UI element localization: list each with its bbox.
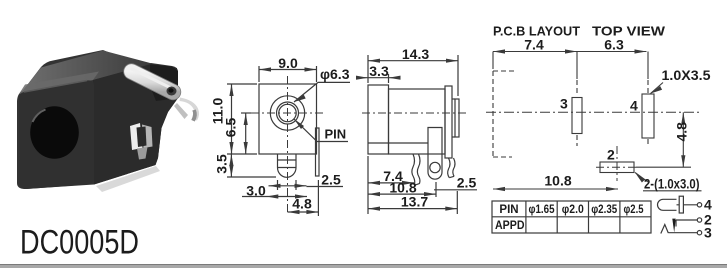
label 1.0X3.5 with leader bbox=[651, 67, 711, 94]
photo: jack drop shadow lower right bbox=[96, 166, 160, 192]
svg-text:1.0X3.5: 1.0X3.5 bbox=[662, 67, 711, 83]
photo: jack front face bbox=[19, 80, 94, 189]
front view center pin tab bbox=[277, 154, 279, 168]
pad 2 centerlines bbox=[616, 146, 618, 181]
dimension 14.3 bbox=[368, 46, 458, 96]
side view right wavy pin bbox=[448, 158, 450, 178]
dimension 7.4 / 6.3 shared line bbox=[493, 37, 647, 70]
pcb footprint dashed outline bbox=[493, 70, 514, 72]
svg-text:φ6.3: φ6.3 bbox=[320, 66, 350, 82]
schematic: terminal 2 wire bbox=[676, 219, 697, 221]
svg-text:APPD: APPD bbox=[495, 220, 525, 232]
photo: jack rear-right dark block bbox=[150, 65, 178, 102]
side view rear pin plate bbox=[455, 99, 459, 137]
photo: jack body silhouette bbox=[17, 50, 178, 189]
dimension 10.8 (pcb) bbox=[493, 173, 618, 192]
dimension 11.0 bbox=[209, 84, 257, 154]
side view horizontal centerline bbox=[362, 112, 466, 114]
svg-text:φ2.0: φ2.0 bbox=[562, 204, 584, 216]
side view bezel bbox=[368, 85, 389, 154]
svg-text:4: 4 bbox=[704, 197, 712, 213]
svg-text:φ2.35: φ2.35 bbox=[591, 204, 618, 216]
dimension 4.8 bbox=[288, 196, 319, 215]
svg-text:4: 4 bbox=[630, 98, 638, 114]
svg-text:6.5: 6.5 bbox=[222, 118, 238, 138]
front view horizontal centerline bbox=[251, 112, 326, 114]
dimension 3.3 bbox=[356, 63, 401, 83]
svg-text:DC0005D: DC0005D bbox=[20, 224, 139, 262]
svg-text:10.8: 10.8 bbox=[544, 173, 571, 189]
front view side lug bbox=[316, 128, 320, 176]
side view solder lug with hole bbox=[428, 128, 442, 180]
svg-text:3: 3 bbox=[560, 96, 568, 112]
dimension 9.0 bbox=[259, 55, 317, 82]
svg-text:4.8: 4.8 bbox=[292, 196, 312, 212]
svg-text:2-(1.0x3.0): 2-(1.0x3.0) bbox=[644, 177, 700, 192]
front view vertical centerline bbox=[287, 76, 289, 215]
svg-text:φ1.65: φ1.65 bbox=[529, 204, 556, 216]
side view main body bbox=[389, 89, 446, 154]
svg-text:13.7: 13.7 bbox=[401, 194, 428, 210]
label 2-(1.0x3.0) with leader bbox=[635, 173, 702, 192]
dimension 2.5 (side) bbox=[434, 175, 477, 191]
dimension 7.4 (side) bbox=[368, 156, 414, 214]
pad 3 bbox=[572, 98, 582, 134]
svg-text:14.3: 14.3 bbox=[402, 46, 429, 62]
bottom gray bar bbox=[0, 265, 727, 268]
svg-text:3.5: 3.5 bbox=[213, 154, 229, 174]
svg-text:2.5: 2.5 bbox=[321, 172, 341, 188]
photo: front lower metal clip bbox=[130, 123, 143, 150]
svg-text:7.4: 7.4 bbox=[524, 37, 544, 53]
dimension 3.5 bbox=[213, 154, 276, 177]
side view left wavy pin bbox=[412, 154, 415, 185]
svg-text:TOP VIEW: TOP VIEW bbox=[592, 25, 665, 39]
dimension phi6.3 bbox=[294, 66, 350, 102]
schematic: sleeve barrel symbol bbox=[658, 196, 713, 240]
svg-text:3.0: 3.0 bbox=[246, 183, 266, 199]
photo: hook pin upper right bbox=[180, 98, 200, 121]
pad 2 bbox=[600, 162, 634, 173]
schematic: terminal 4 bbox=[697, 203, 701, 207]
dimension 2.5 (front) bbox=[307, 172, 344, 217]
pad 4 bbox=[642, 94, 654, 138]
svg-text:2: 2 bbox=[607, 147, 615, 163]
side view base step line bbox=[368, 142, 428, 144]
svg-text:PIN: PIN bbox=[325, 127, 347, 142]
photo: metal lever clip bbox=[132, 69, 177, 96]
schematic: switch contact and terminal 3 bbox=[661, 225, 669, 234]
svg-text:3.3: 3.3 bbox=[369, 63, 389, 79]
photo: jack barrel hole bbox=[30, 106, 79, 159]
dimension 4.8 (top view) bbox=[636, 112, 691, 167]
pin size table bbox=[492, 201, 651, 233]
svg-text:2.5: 2.5 bbox=[457, 175, 477, 191]
front view body outline bbox=[259, 84, 317, 154]
pad 3 centerline dashed bbox=[576, 52, 578, 80]
svg-text:PIN: PIN bbox=[499, 204, 518, 216]
dimension 10.8 (side) bbox=[368, 179, 436, 197]
PIN label and leader bbox=[294, 119, 348, 142]
front view barrel circles bbox=[270, 96, 304, 130]
schematic: center pin mark bbox=[672, 219, 675, 233]
svg-text:6.3: 6.3 bbox=[604, 37, 624, 53]
photo: jack right side face bbox=[93, 64, 178, 185]
pcb horizontal centerline bbox=[486, 111, 700, 113]
svg-text:9.0: 9.0 bbox=[278, 55, 298, 71]
svg-text:4.8: 4.8 bbox=[674, 122, 690, 142]
svg-text:φ2.5: φ2.5 bbox=[624, 204, 644, 216]
dimension 6.5 bbox=[222, 113, 251, 154]
side view back plate bbox=[445, 86, 452, 158]
dimension 13.7 (side) bbox=[368, 191, 457, 214]
pad 4 centerline dashed bbox=[647, 52, 649, 80]
svg-text:3: 3 bbox=[704, 224, 712, 240]
dimension 3.0 bbox=[242, 180, 307, 199]
photo: jack bezel top band bbox=[19, 72, 99, 95]
photo: jack top face bbox=[21, 51, 152, 94]
